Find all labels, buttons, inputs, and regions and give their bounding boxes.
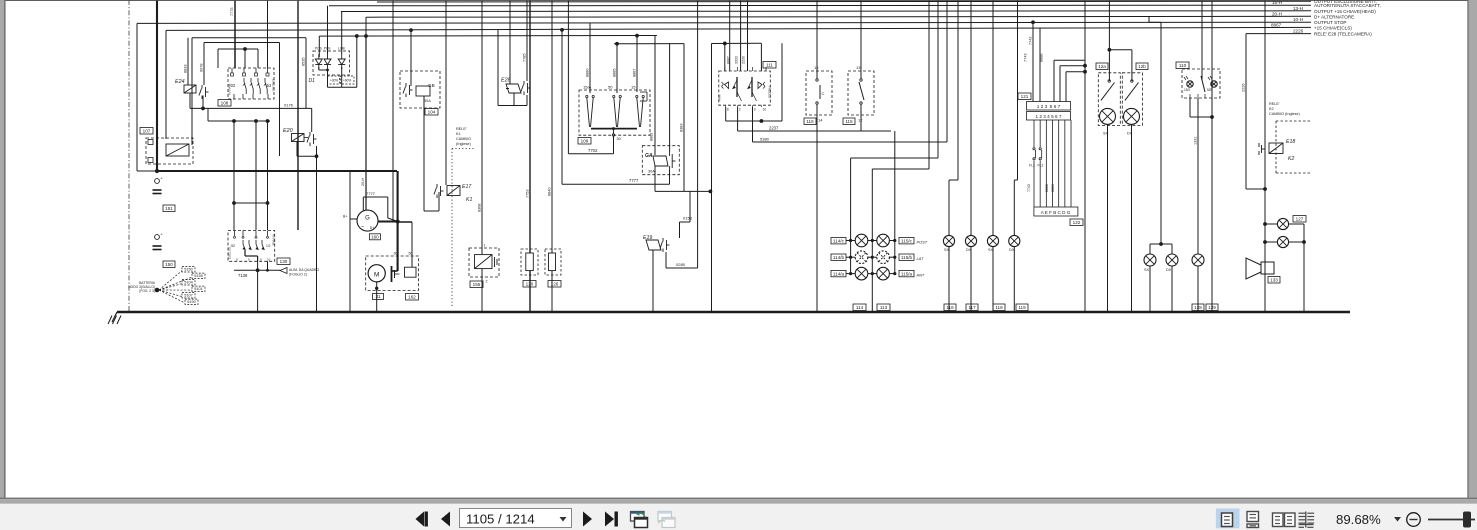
svg-text:B+: B+ xyxy=(343,215,347,219)
wire cluster left feed xyxy=(849,0,938,275)
svg-text:ANT: ANT xyxy=(916,273,925,278)
wire 7776 drop to block 108 xyxy=(267,0,269,68)
wire feeds to flasher 111 xyxy=(725,0,762,71)
svg-text:+30%: +30% xyxy=(330,79,338,83)
svg-text:RELE' E28 (TELECAMERA): RELE' E28 (TELECAMERA) xyxy=(1314,31,1372,36)
svg-text:8535: 8535 xyxy=(302,58,306,66)
svg-text:30: 30 xyxy=(617,137,621,141)
wire bus OUTPUT ESCLUSIONE BATT xyxy=(377,0,1311,3)
connector 121 xyxy=(1018,93,1071,120)
wire lamp SX2 to ground xyxy=(992,247,994,312)
wire 2226 horizontal xyxy=(1246,33,1311,35)
diode block D1 xyxy=(309,47,355,85)
switch 116 xyxy=(804,65,832,125)
relay E20 xyxy=(283,128,317,146)
svg-text:OUTPUT +15 CHIAVE(HEAD): OUTPUT +15 CHIAVE(HEAD) xyxy=(1314,9,1376,14)
svg-text:162: 162 xyxy=(408,295,416,300)
wire 7138 xyxy=(234,261,280,278)
fuse FL1 xyxy=(1029,148,1036,168)
wire E20 return xyxy=(297,142,318,159)
wire segment y35.4 (D1 output rail) xyxy=(319,34,657,155)
svg-text:8887: 8887 xyxy=(633,69,637,77)
svg-text:8840: 8840 xyxy=(548,188,552,196)
svg-text:1: 1 xyxy=(484,244,486,248)
svg-text:115/c: 115/c xyxy=(901,239,913,244)
wire switch116 pin14 to ground xyxy=(816,104,818,312)
node GB tap on +15 bus xyxy=(409,28,413,32)
svg-text:52: 52 xyxy=(267,83,272,88)
svg-text:127: 127 xyxy=(1296,217,1304,222)
wire block130 to ground xyxy=(257,270,259,312)
wire lamp DX1 to ground xyxy=(970,247,972,312)
wire x350 to ground xyxy=(349,171,351,312)
wire 7742/7743 from bus xyxy=(1024,20,1044,101)
svg-text:5155: 5155 xyxy=(194,274,202,278)
svg-text:116: 116 xyxy=(946,305,954,310)
wire 8887 to 15 xyxy=(633,36,638,92)
svg-text:12a: 12a xyxy=(1098,64,1106,69)
svg-text:89.68%: 89.68% xyxy=(1336,512,1381,527)
toolbar background xyxy=(0,504,1477,530)
svg-text:E24: E24 xyxy=(175,79,185,85)
svg-text:2230: 2230 xyxy=(742,56,746,64)
net arrow ALIM. DA QUADRO xyxy=(280,268,320,277)
svg-text:20-H: 20-H xyxy=(1272,11,1282,16)
svg-text:110: 110 xyxy=(1179,63,1187,68)
wire GA output rail xyxy=(655,166,712,193)
toolbar button previous view xyxy=(631,512,648,528)
svg-text:8887: 8887 xyxy=(727,56,731,64)
wire 8885 xyxy=(613,44,618,93)
svg-text:1 2 3 5 6 7: 1 2 3 5 6 7 xyxy=(1037,104,1061,109)
wire 7777 alternator loop xyxy=(363,191,397,222)
wire feed lamp SX2 xyxy=(992,0,994,235)
svg-text:5104: 5104 xyxy=(184,281,192,285)
svg-text:30A: 30A xyxy=(424,99,431,103)
svg-text:114/a: 114/a xyxy=(833,272,845,277)
svg-text:10: 10 xyxy=(267,257,271,261)
svg-text:K1: K1 xyxy=(466,197,472,203)
wire switch116 feed xyxy=(816,0,818,79)
svg-text:E28: E28 xyxy=(501,78,511,84)
svg-text:C: C xyxy=(822,91,825,96)
wire 7775 drop to block 108 xyxy=(230,0,235,68)
svg-text:GB: GB xyxy=(428,83,435,88)
svg-text:8: 8 xyxy=(727,108,729,112)
wire feeds switch 110 xyxy=(1202,0,1212,117)
svg-text:104: 104 xyxy=(428,110,436,115)
svg-text:8833: 8833 xyxy=(184,65,188,73)
connector 122 xyxy=(1034,207,1083,226)
svg-text:RELE': RELE' xyxy=(1269,102,1280,106)
wire 7785 xyxy=(523,0,528,81)
toolbar button next view (disabled) xyxy=(658,512,675,528)
svg-text:8383: 8383 xyxy=(680,124,684,132)
svg-text:D+: D+ xyxy=(370,226,374,230)
wire 8535 frame corner xyxy=(298,38,306,109)
svg-text:119: 119 xyxy=(1018,305,1026,310)
svg-text:133: 133 xyxy=(1270,278,1278,283)
lamp center3 xyxy=(1192,254,1204,266)
wire x1265 main right vertical xyxy=(1263,0,1267,312)
relay E18 / K2 xyxy=(1259,139,1295,162)
wire 8368 to relay 155 xyxy=(478,0,483,254)
node battery distribution (BATTERIA) xyxy=(128,267,205,305)
svg-text:(Inglese): (Inglese) xyxy=(456,142,472,146)
svg-text:DX: DX xyxy=(1166,268,1172,272)
svg-text:5101: 5101 xyxy=(194,287,202,291)
wire GA contact feed xyxy=(669,43,671,152)
wire bus OUTPUT STOP xyxy=(137,22,1311,23)
svg-text:12b: 12b xyxy=(1138,64,1146,69)
svg-text:30: 30 xyxy=(394,252,398,256)
wire relay 155 to ground xyxy=(481,269,483,312)
svg-text:2237: 2237 xyxy=(769,125,779,130)
svg-text:115: 115 xyxy=(845,119,853,124)
svg-text:1/2: 1/2 xyxy=(266,244,271,248)
svg-text:8888: 8888 xyxy=(1045,184,1049,192)
lamp DX1 xyxy=(965,235,976,252)
wire bus D+ ALTERNATORE xyxy=(366,15,1311,18)
fuse GA 30A xyxy=(642,146,679,175)
svg-text:128: 128 xyxy=(1194,305,1202,310)
wire fuse GB output to relay K1 xyxy=(424,96,439,211)
svg-text:FRECCE: FRECCE xyxy=(768,86,772,98)
alternator G xyxy=(343,210,380,240)
svg-text:+60%: +60% xyxy=(343,79,351,83)
svg-text:7742: 7742 xyxy=(1029,37,1033,45)
wire lamp DX2 to ground xyxy=(1013,247,1015,312)
viewer page border left xyxy=(0,0,6,499)
svg-text:107: 107 xyxy=(143,129,151,134)
svg-text:50: 50 xyxy=(608,85,613,90)
toolbar button first page xyxy=(416,512,428,527)
wire 0176 corner to E20 contact xyxy=(311,108,313,132)
svg-text:114/b: 114/b xyxy=(833,255,845,260)
svg-text:15: 15 xyxy=(631,85,636,90)
svg-text:SX: SX xyxy=(1144,268,1150,272)
wire B+ battery to alternator/starter (thick) xyxy=(157,170,397,172)
wire x711 to ground xyxy=(711,44,713,313)
wire battery main vertical xyxy=(156,0,158,171)
wire E28 coil feed xyxy=(509,0,511,84)
svg-text:155: 155 xyxy=(473,282,481,287)
wire L4 drop to D+ rail xyxy=(365,17,367,36)
svg-text:AUTORITENUTA STACCABATT,: AUTORITENUTA STACCABATT, xyxy=(1314,3,1381,8)
svg-text:8867: 8867 xyxy=(1271,23,1282,28)
lamp DX3 xyxy=(1166,254,1178,272)
horn 133 xyxy=(1246,258,1280,283)
svg-text:POST: POST xyxy=(917,240,928,245)
relay E19 xyxy=(643,235,670,252)
wire POST right column xyxy=(893,131,896,275)
wire lamp 12b to ground xyxy=(1131,124,1133,312)
svg-text:52: 52 xyxy=(231,244,235,248)
svg-text:7775: 7775 xyxy=(230,8,234,16)
viewer page border right xyxy=(1467,0,1477,499)
viewer page border bottom xyxy=(0,498,1477,504)
svg-text:8882: 8882 xyxy=(650,133,654,141)
wire 1331 xyxy=(1194,98,1199,254)
svg-text:(FOGLIO 2): (FOGLIO 2) xyxy=(289,273,307,277)
toolbar layout facing xyxy=(1273,513,1296,527)
ground rail xyxy=(117,311,1350,313)
relay E17 / K1 xyxy=(434,184,472,203)
svg-text:114: 114 xyxy=(856,305,864,310)
svg-text:10: 10 xyxy=(763,108,767,112)
svg-text:108: 108 xyxy=(221,101,229,106)
svg-text:E17: E17 xyxy=(462,184,472,190)
fuse 126 (8840) xyxy=(545,0,561,312)
wire 7702 xyxy=(568,0,613,154)
lamp group 114/c-115/c POST xyxy=(831,234,928,247)
svg-text:0078: 0078 xyxy=(200,64,204,72)
svg-text:7753: 7753 xyxy=(526,190,530,198)
wire bus OUTPUT +15 CHIAVE(HEAD) xyxy=(341,10,1311,13)
svg-text:2: 2 xyxy=(739,108,741,112)
toolbar layout single page (active) xyxy=(1216,509,1240,529)
wire 0078 E24 contact feed xyxy=(200,43,205,86)
svg-text:OUTPUT STOP: OUTPUT STOP xyxy=(1314,20,1347,25)
wire x1085 with taps to connector 121 xyxy=(1054,0,1087,312)
lamp group 114/b-115/b LAT (dashed) xyxy=(831,251,924,264)
wire segment y43.5 right (flasher feed) xyxy=(712,42,762,46)
svg-text:7777: 7777 xyxy=(629,178,639,183)
svg-text:CAMBIO (Inglese): CAMBIO (Inglese) xyxy=(1269,112,1301,116)
svg-text:8880: 8880 xyxy=(586,69,590,77)
wire segment y43.5 (8885 feed) xyxy=(614,42,684,46)
wire y35 corner to diode1 xyxy=(318,36,320,57)
relay 155 xyxy=(469,244,499,288)
toolbar button last page xyxy=(605,512,618,527)
svg-text:129: 129 xyxy=(1208,305,1216,310)
svg-text:~: ~ xyxy=(361,225,364,231)
svg-text:CAMBIO: CAMBIO xyxy=(456,137,471,141)
svg-text:3333: 3333 xyxy=(735,56,739,64)
wire lamp SX1 to ground xyxy=(948,247,950,312)
lamp SX3 xyxy=(1144,254,1156,272)
ignition switch 109 xyxy=(578,85,650,145)
lamp group 114/a-115/a ANT xyxy=(831,267,925,280)
wire bus wrap left (OUTPUT STOP) xyxy=(137,23,157,171)
wire 0285 xyxy=(666,0,698,268)
svg-text:30A: 30A xyxy=(648,170,655,174)
svg-text:8883: 8883 xyxy=(1051,184,1055,192)
wire cluster mid column xyxy=(871,0,929,312)
wire third frame to block 108 xyxy=(218,47,258,68)
toolbar layout continuous xyxy=(1247,512,1259,528)
fuse FL2 xyxy=(1038,148,1044,168)
relay 107 (staccabatteria) xyxy=(140,128,193,172)
svg-text:113: 113 xyxy=(880,305,888,310)
wire D+ alternator xyxy=(361,36,366,211)
lamp switch box 12a xyxy=(1096,63,1120,136)
wire to starter 50 terminal xyxy=(398,222,412,267)
wire lamp 12a to ground xyxy=(1107,124,1109,312)
wire 5380 run xyxy=(753,0,948,142)
lamp SX2 xyxy=(987,235,998,252)
wire x393 drop xyxy=(392,0,394,222)
wire E19 to ground xyxy=(652,250,654,312)
wire feed lamps 12a/12b xyxy=(1108,0,1132,81)
svg-text:5190: 5190 xyxy=(187,300,195,304)
schematic page frame (dash-dot border) xyxy=(128,0,130,312)
svg-text:7777: 7777 xyxy=(366,191,376,196)
svg-text:GA: GA xyxy=(645,153,653,159)
wire drop bus3 to diode3 xyxy=(341,12,343,55)
svg-text:RELE': RELE' xyxy=(456,127,467,131)
wire 8880 xyxy=(586,23,591,93)
svg-text:160: 160 xyxy=(371,235,379,240)
svg-text:121: 121 xyxy=(1021,94,1029,99)
svg-text:FL1: FL1 xyxy=(1029,164,1035,168)
svg-text:7743: 7743 xyxy=(1027,184,1031,192)
svg-text:3: 3 xyxy=(754,108,756,112)
switch 115 xyxy=(843,65,874,125)
connector labels 11B 117 15B 118 xyxy=(944,304,1028,311)
svg-text:5150: 5150 xyxy=(184,268,192,272)
wire bus to fuse GB xyxy=(410,30,412,86)
svg-text:116: 116 xyxy=(806,119,814,124)
wire lamp pair right to ground xyxy=(1303,224,1305,312)
lamp pair lower xyxy=(1263,236,1306,247)
toolbar button previous page xyxy=(441,512,450,527)
svg-text:2: 2 xyxy=(486,280,488,284)
relay E24 xyxy=(175,79,209,108)
wire harness 121 to 122 xyxy=(1027,120,1071,207)
toolbar zoom slider xyxy=(1428,512,1475,528)
wire inner frame E24 cluster xyxy=(204,43,280,157)
viewer top border xyxy=(0,0,1477,2)
svg-text:1105 / 1214: 1105 / 1214 xyxy=(466,512,535,527)
wire 2226 drop xyxy=(1242,34,1266,189)
svg-text:14: 14 xyxy=(818,118,823,123)
wire switch110 to ground via 117 node xyxy=(1190,98,1218,312)
flasher unit 111 xyxy=(718,62,777,112)
svg-text:E18: E18 xyxy=(1286,139,1295,145)
svg-text:ALIM. DA QUADRO: ALIM. DA QUADRO xyxy=(289,268,320,272)
svg-text:114/c: 114/c xyxy=(833,239,845,244)
switch 110 xyxy=(1176,62,1220,98)
wire starter M to ground xyxy=(373,282,384,312)
svg-text:0176: 0176 xyxy=(284,103,294,108)
svg-text:117: 117 xyxy=(968,305,976,310)
lamp switch box 12b xyxy=(1122,63,1148,136)
starter motor 162 xyxy=(366,252,419,301)
svg-text:ARR.: ARR. xyxy=(718,94,722,101)
toolbar zoom percent xyxy=(1336,512,1401,527)
svg-text:52F: 52F xyxy=(1207,88,1213,92)
wire 0176 rail xyxy=(190,103,312,111)
wire rail under block 108 xyxy=(208,108,270,123)
wire D1 output rail xyxy=(319,36,357,87)
net label block (bus destinations) xyxy=(1271,0,1381,36)
wire E28 return xyxy=(498,30,527,106)
toolbar button next page xyxy=(583,512,592,527)
svg-text:8368: 8368 xyxy=(478,204,482,212)
wire feed SX3/DX3 pair xyxy=(1149,16,1172,254)
svg-text:7138: 7138 xyxy=(238,273,248,278)
wire drop bus2 to diode2 xyxy=(327,6,329,54)
fuse GB 30A (104) xyxy=(400,71,440,115)
wire feed lamp DX1 xyxy=(970,0,972,235)
wire E17 coil feed xyxy=(445,0,447,185)
svg-text:8888: 8888 xyxy=(1040,54,1044,62)
svg-text:A E F B C D G: A E F B C D G xyxy=(1041,210,1071,215)
svg-text:20-H: 20-H xyxy=(361,178,365,186)
connector block 108 (commutatore) xyxy=(218,68,276,106)
boundary dotted K1 group xyxy=(452,149,474,307)
connector 113 label xyxy=(877,304,890,311)
wire switch115 feed xyxy=(860,0,862,79)
wire 0158 to E19 xyxy=(680,191,693,238)
lamp pair 127 upper xyxy=(1263,216,1306,230)
wire drop to 7777 line xyxy=(560,28,564,184)
svg-text:7702: 7702 xyxy=(588,148,598,153)
svg-text:FL2: FL2 xyxy=(1038,164,1044,168)
svg-text:1 2 3 4 5 6 7: 1 2 3 4 5 6 7 xyxy=(1035,114,1061,119)
svg-text:K2: K2 xyxy=(1269,107,1274,111)
svg-text:13-H: 13-H xyxy=(1293,6,1303,11)
wire alternator B+ (thick) xyxy=(378,171,400,271)
relay E28 xyxy=(501,78,531,96)
wire feed lamp SX1 xyxy=(949,0,958,235)
label RELE K1 CAMBIO xyxy=(456,127,472,146)
wire bus +15 CHIAVE(CLS) xyxy=(166,27,1311,30)
svg-text:2226: 2226 xyxy=(1293,28,1304,33)
boundary dashed K2 group xyxy=(1276,121,1311,173)
wire 8383 xyxy=(680,44,685,192)
svg-text:D1: D1 xyxy=(309,78,316,84)
svg-text:0285: 0285 xyxy=(676,262,686,267)
connector 151 on battery line xyxy=(153,176,176,212)
wire bus AUTORITENUTA STACCABATT xyxy=(329,4,1311,7)
svg-text:ESCLUS.: ESCLUS. xyxy=(272,79,276,92)
svg-text:M: M xyxy=(374,271,379,278)
svg-text:D+ ALTERNATORE: D+ ALTERNATORE xyxy=(1314,14,1354,19)
toolbar page number field xyxy=(460,509,572,528)
svg-text:115/a: 115/a xyxy=(901,272,913,277)
toolbar zoom out xyxy=(1407,513,1421,527)
connector 114 label xyxy=(853,304,866,311)
svg-text:13: 13 xyxy=(856,65,861,70)
svg-text:8885: 8885 xyxy=(613,69,617,77)
svg-text:130: 130 xyxy=(280,259,288,264)
svg-text:31: 31 xyxy=(375,294,381,299)
node battery junction xyxy=(155,169,159,173)
wire lamp center3 to ground xyxy=(1192,266,1204,312)
lamp DX2 xyxy=(1009,235,1020,252)
svg-text:1331: 1331 xyxy=(1194,137,1198,145)
svg-text:122: 122 xyxy=(1073,220,1081,225)
wire 2237 xyxy=(726,43,782,123)
wire lamp SX3 to ground xyxy=(1149,266,1151,312)
svg-text:50: 50 xyxy=(409,252,413,256)
svg-text:7785: 7785 xyxy=(523,54,527,62)
svg-text:151: 151 xyxy=(165,206,173,211)
svg-text:118: 118 xyxy=(995,305,1003,310)
svg-text:G: G xyxy=(365,216,370,222)
svg-text:0158: 0158 xyxy=(683,216,693,221)
svg-text:10-H: 10-H xyxy=(1293,17,1303,22)
svg-text:115/b: 115/b xyxy=(901,255,913,260)
connector 150 on battery line xyxy=(153,232,176,268)
ground symbol xyxy=(108,312,121,324)
svg-text:7743: 7743 xyxy=(1024,54,1028,62)
lamp SX1 xyxy=(943,235,954,252)
svg-text:2226: 2226 xyxy=(1242,84,1246,92)
svg-text:150: 150 xyxy=(165,262,173,267)
